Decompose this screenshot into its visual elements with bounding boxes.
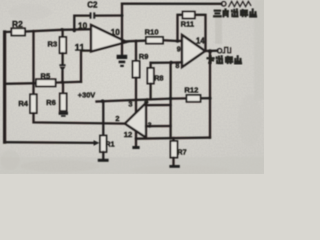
wire R8 to rail [149,84,151,99]
wire R3 to diode [61,53,63,64]
node junction R4 tap [32,30,35,33]
node junction op2 inv input [176,39,180,43]
svg-text:R11: R11 [181,20,195,29]
node junction diode/R5 [61,81,64,84]
resistor R4 [30,94,37,113]
svg-text:9: 9 [177,44,181,53]
node junction R9 top [135,40,138,43]
resistor R8 [149,63,151,68]
wire R1 bottom [102,152,104,159]
wire R4 to op3 output [34,113,126,124]
node junction plus/drop [169,61,173,65]
svg-text:10: 10 [111,28,121,37]
node junction rail/drop [169,97,173,101]
potentiometer R1 [102,101,104,135]
wire R5 net [5,82,36,85]
wire op3 bottom input [146,125,171,127]
right edge smudge [254,0,264,100]
svg-text:R2: R2 [12,19,23,29]
node junction C2 tap [73,29,76,32]
wire op2 plus net [151,61,182,64]
wire plus drop [169,63,171,139]
node junction riser/output [120,40,123,43]
wire R11 loop [178,15,206,51]
wire op1 output net [122,39,146,42]
node junction output2 [208,49,212,53]
svg-text:R7: R7 [177,147,186,156]
bottom smudge band [0,157,264,174]
label square output (方波输出) [207,56,242,64]
wire R9 to bus [135,78,137,139]
wire left rail [3,32,6,142]
svg-text:10: 10 [78,21,88,30]
terminal triangle wave [221,2,226,7]
wire bottom bus right [136,138,210,139]
op-amp U1A [91,25,127,52]
svg-text:11: 11 [75,41,85,52]
ground under op1 output [121,42,123,55]
svg-text:R4: R4 [18,99,28,108]
svg-text:R10: R10 [145,28,159,37]
op-amp U1B [182,35,205,67]
svg-text:R5: R5 [41,72,51,81]
resistor R7 [172,138,174,141]
wire feedback riser [121,4,123,42]
wire diode to R5 net [61,71,63,82]
terminal square wave [217,49,221,53]
svg-text:12: 12 [124,130,132,139]
node junction R12 right [208,97,211,100]
svg-text:R3: R3 [48,39,58,48]
resistor R2 [11,28,25,35]
resistor R9 [135,41,137,61]
wire mid rail [97,98,187,101]
wire top net to triangle terminal [122,3,221,5]
gray streak under triangle label [215,15,222,44]
wire top input net [5,31,12,34]
svg-text:R8: R8 [154,74,163,83]
svg-text:R12: R12 [184,86,198,95]
svg-text:14: 14 [196,36,205,45]
ground stub mid bus [135,139,137,146]
wire R4 drop [32,31,34,94]
node junction riser/top [121,14,124,17]
wire C2 to feedback riser [95,14,122,16]
svg-text:2: 2 [115,114,119,123]
resistor R10 [146,37,163,44]
resistor R12 [187,95,201,102]
wire op2 output [205,50,217,53]
resistor R3 [61,30,63,37]
scan blotches [8,4,52,20]
svg-text:R6: R6 [46,98,56,107]
paper background [0,0,264,174]
svg-text:+30V: +30V [78,91,96,100]
wire C2 branch [74,16,89,31]
ground under R6 [59,112,68,115]
resistor R11 [183,12,195,19]
svg-text:3: 3 [128,100,132,109]
resistor R5 [36,79,56,86]
capacitor C2 [90,12,92,18]
svg-text:R1: R1 [105,139,114,148]
svg-text:C2: C2 [87,0,98,9]
svg-text:R9: R9 [139,52,148,61]
wire op3 top input [146,104,171,106]
node junction R3 top [60,28,63,31]
wire output2 drop [209,51,211,137]
resistor R6 [62,82,64,93]
node junction R1 top [101,99,105,103]
label triangle output (三角波输出) [214,9,257,17]
wire op1 plus input riser [81,51,91,82]
wire bottom bus left [5,141,94,144]
diode D1 [59,64,65,66]
op-amp U1C [125,103,146,138]
wire R7 bottom [172,158,174,165]
